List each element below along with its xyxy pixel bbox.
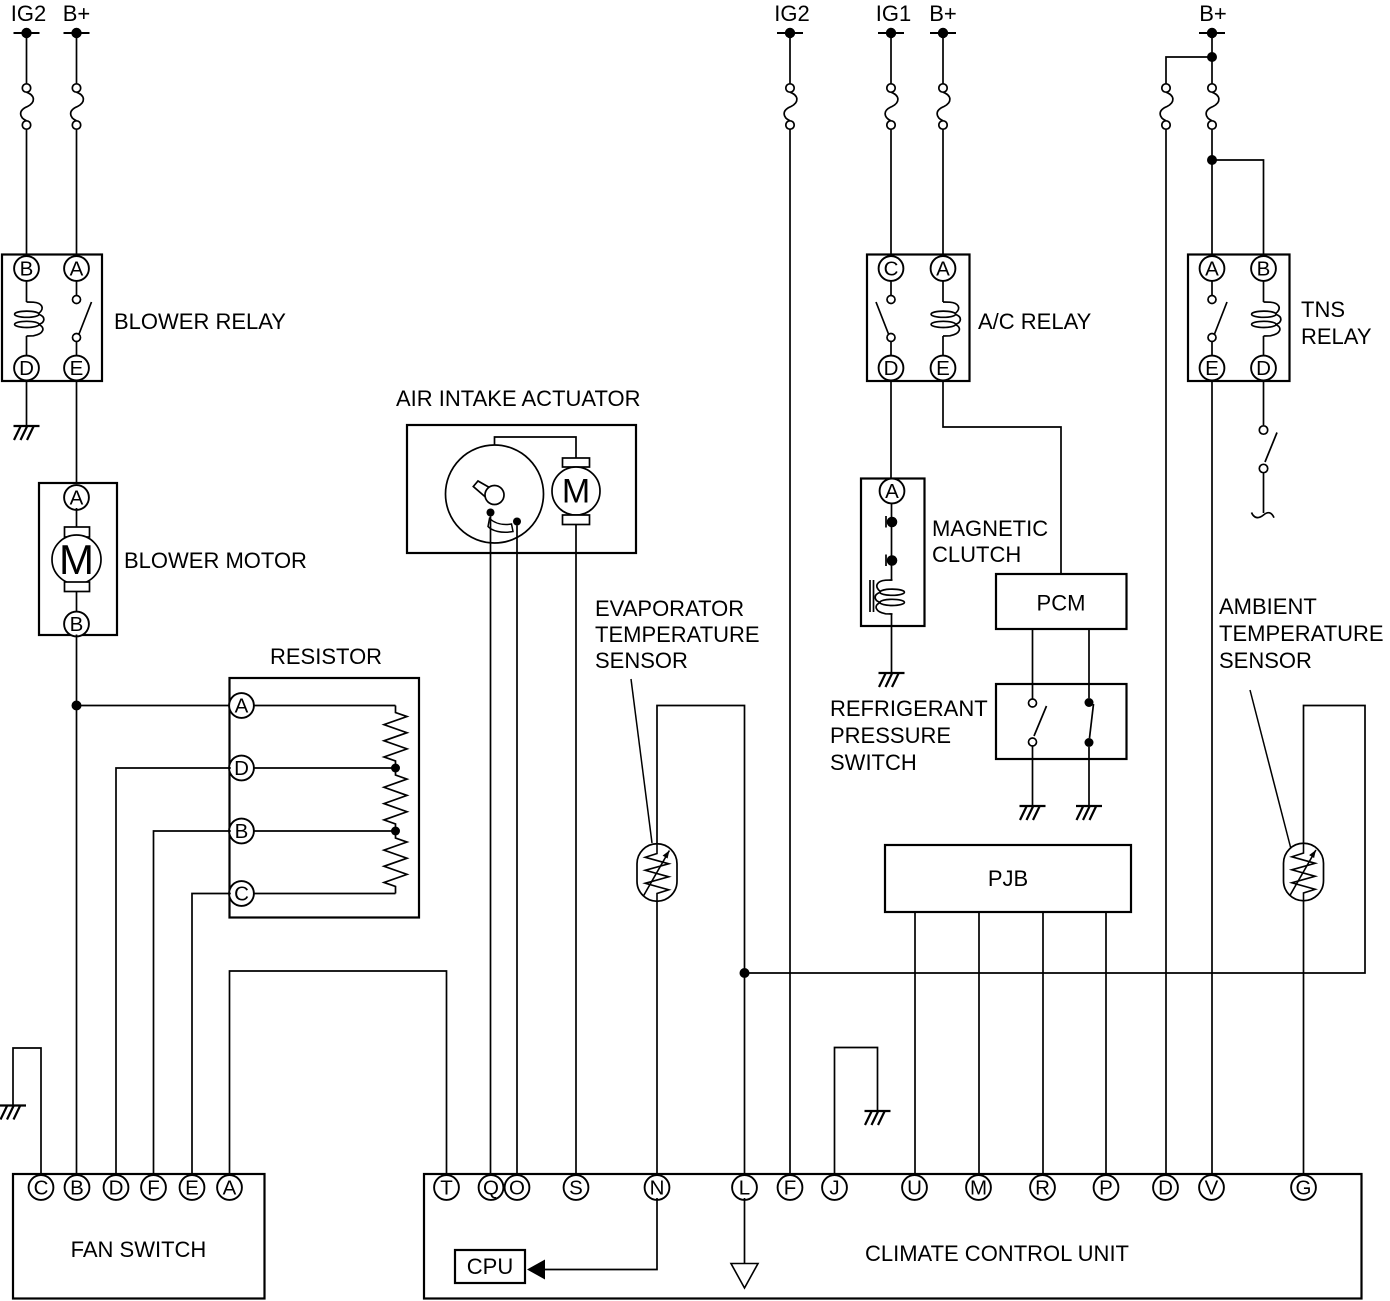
wire PJB to climate control unit U [914,912,916,1174]
ground below blower relay [14,426,40,440]
wire resistor C to fan switch E [192,894,231,1175]
climate control unit pin S [564,1175,589,1200]
fan switch pin B [65,1175,90,1200]
climate control unit box [424,1174,1362,1299]
svg-text:N: N [650,1177,665,1200]
svg-text:M: M [562,473,590,511]
svg-text:BLOWER RELAY: BLOWER RELAY [114,309,286,334]
svg-text:REFRIGERANT: REFRIGERANT [830,696,988,721]
wire fan switch C to ground [13,1048,41,1174]
wire IG1 to A/C relay pin C [890,38,892,255]
wire evaporator sensor loop to climate control unit L [657,706,745,1175]
svg-text:A: A [70,258,84,281]
TNS relay switch contact [1208,282,1227,356]
magnetic clutch pin A [880,479,905,504]
fan switch box [13,1174,265,1299]
svg-text:M: M [59,536,94,583]
internal ground triangle under L [731,1264,758,1289]
wire evaporator sensor to climate control unit N [656,901,658,1174]
pressure switch closed contact [1085,698,1094,747]
blower motor pin A [64,485,89,510]
svg-text:A: A [1205,258,1219,281]
svg-text:A: A [885,480,899,503]
A/C relay switch contact [876,282,895,356]
TNS relay pin E [1200,356,1225,381]
wire-continues squiggle on TNS D branch [1252,513,1275,518]
connector in D wire [1160,84,1173,129]
wire pressure switch right to ground [1088,747,1090,806]
wire actuator node2 to climate control unit O [516,526,518,1175]
blower relay pin D [14,356,39,381]
wire A/C relay D to magnetic clutch A [890,381,892,479]
svg-text:O: O [509,1177,525,1200]
wire resistor B to fan switch F [154,831,231,1174]
connector in IG1 wire [885,84,898,129]
ground for climate control unit J [865,1111,891,1125]
resistor internal wire A [252,705,396,707]
resistor pin D [229,756,254,781]
connector in middle B+ wire [937,84,950,129]
blower motor armature M [52,508,101,614]
climate control unit pin P [1094,1175,1119,1200]
svg-text:A: A [936,258,950,281]
wire fan switch A to climate control unit T [230,971,447,1174]
fan switch pin A [217,1175,242,1200]
svg-text:B: B [70,1177,84,1200]
climate control unit pin V [1199,1175,1224,1200]
svg-text:E: E [936,357,950,380]
TNS relay pin D [1251,356,1276,381]
climate control unit pin D [1153,1175,1178,1200]
svg-text:TEMPERATURE: TEMPERATURE [1219,621,1384,646]
svg-text:E: E [70,357,84,380]
evaporator temperature sensor thermistor [637,844,677,902]
arrow into CPU [527,1260,545,1280]
label EVAPORATOR TEMPERATURE SENSOR [595,596,760,673]
power terminal IG2 (left) [11,1,46,38]
fan switch pin F [141,1175,166,1200]
power terminal B+ (middle) [929,1,957,38]
svg-text:D: D [1158,1177,1173,1200]
wire blower relay E to blower motor A [76,381,78,483]
climate control unit pin M [966,1175,991,1200]
resistor pin C [229,881,254,906]
svg-text:D: D [234,757,249,780]
A/C relay pin E [931,356,956,381]
resistor pin B [229,819,254,844]
svg-text:L: L [739,1177,750,1200]
TNS relay box [1188,255,1290,382]
actuator wiper contact node 1 [487,509,495,517]
svg-text:CPU: CPU [467,1254,513,1279]
svg-text:TNS: TNS [1301,297,1345,322]
magnetic clutch connector node 2 [886,527,897,566]
ground for fan switch C [0,1106,26,1120]
wire B+ to blower relay pin A [76,38,78,255]
svg-text:Q: Q [483,1177,499,1200]
svg-text:C: C [34,1177,49,1200]
wire IG2 to blower relay pin B [26,38,28,255]
wire IG2 to climate control unit F [789,38,791,1174]
svg-text:PJB: PJB [988,866,1028,891]
wire pressure switch left to ground [1032,746,1034,806]
PCM box [996,574,1127,629]
blower relay coil [15,282,44,356]
power terminal B+ (left) [63,1,91,38]
power terminal IG2 (right) [774,1,809,38]
CPU box [455,1250,525,1283]
svg-text:D: D [1256,357,1271,380]
connector in B+ wire [71,84,84,129]
resistor element 3 [384,831,407,894]
svg-text:IG2: IG2 [774,1,809,26]
A/C relay box [867,255,970,382]
actuator wiper contact node 2 [513,518,521,526]
svg-text:CLIMATE CONTROL UNIT: CLIMATE CONTROL UNIT [865,1241,1129,1266]
svg-text:B+: B+ [63,1,91,26]
svg-text:EVAPORATOR: EVAPORATOR [595,596,744,621]
svg-text:C: C [234,883,249,906]
ground below magnetic clutch [879,673,905,687]
junction node blower motor / resistor A [72,701,82,711]
magnetic clutch coil with core [870,565,904,673]
resistor element 1 [384,706,407,769]
climate control unit pin T [434,1175,459,1200]
wire PJB to climate control unit P [1105,912,1107,1174]
svg-text:RELAY: RELAY [1301,324,1372,349]
svg-text:A/C RELAY: A/C RELAY [978,309,1092,334]
climate control unit pin Q [479,1175,504,1200]
fan switch pin D [104,1175,129,1200]
climate control unit pin F [778,1175,803,1200]
junction node resistor B tap [391,827,400,836]
climate control unit pin N [645,1175,670,1200]
svg-text:B: B [1257,258,1271,281]
climate control unit pin J [822,1175,847,1200]
connector in TNS B+ wire [1206,84,1219,129]
climate control unit pin U [902,1175,927,1200]
wire PJB to climate control unit M [978,912,980,1174]
power terminal IG1 [876,1,911,38]
TNS relay coil [1252,282,1281,356]
wire PCM to pressure switch left [1032,629,1034,699]
wire B+ to TNS relay pin A [1211,38,1213,255]
magnetic clutch box [861,479,925,627]
svg-text:G: G [1296,1177,1312,1200]
wire A/C relay E to PCM [943,381,1061,574]
svg-text:PCM: PCM [1037,591,1086,616]
fan switch pin C [29,1175,54,1200]
label REFRIGERANT PRESSURE SWITCH [830,696,988,775]
svg-text:SENSOR: SENSOR [1219,648,1312,673]
resistor pin A [229,693,254,718]
svg-text:J: J [829,1177,839,1200]
wire actuator node1 to climate control unit Q [490,517,492,1175]
leader line to evaporator sensor [631,679,652,843]
TNS relay pin A [1200,256,1225,281]
resistor internal wire B [252,830,396,832]
TNS relay D output switch [1259,381,1277,513]
svg-text:E: E [185,1177,199,1200]
svg-text:BLOWER MOTOR: BLOWER MOTOR [124,548,307,573]
svg-text:F: F [147,1177,160,1200]
svg-text:SENSOR: SENSOR [595,648,688,673]
wire PJB to climate control unit R [1042,912,1044,1174]
svg-text:B: B [235,820,249,843]
wire common junction to ambient loop [745,706,1366,974]
wire actuator motor to climate control unit S [575,525,577,1175]
actuator motor M [552,458,600,525]
connector in IG2 wire [21,84,34,129]
blower relay pin B [14,256,39,281]
wire blower motor B down to fan switch B [76,635,78,1175]
connector in right IG2 wire [784,84,797,129]
wire junction to resistor pin A [77,705,232,707]
svg-text:AMBIENT: AMBIENT [1219,594,1317,619]
svg-text:R: R [1035,1177,1050,1200]
junction node B+ branch [1207,52,1217,62]
svg-text:AIR INTAKE ACTUATOR: AIR INTAKE ACTUATOR [396,386,640,411]
wire ambient sensor to climate control unit G [1303,901,1305,1175]
svg-text:TEMPERATURE: TEMPERATURE [595,622,760,647]
junction node sensor common [740,968,750,978]
TNS relay pin B [1251,256,1276,281]
svg-text:MAGNETIC: MAGNETIC [932,516,1048,541]
climate control unit pin R [1030,1175,1055,1200]
svg-text:C: C [884,258,899,281]
junction node TNS coil branch [1207,155,1217,165]
svg-text:B+: B+ [1199,1,1227,26]
A/C relay coil [931,282,960,356]
wire climate control unit J to ground [835,1048,878,1175]
svg-text:SWITCH: SWITCH [830,750,917,775]
svg-text:A: A [223,1177,237,1200]
A/C relay pin D [879,356,904,381]
ambient temperature sensor thermistor [1284,843,1324,901]
svg-text:FAN SWITCH: FAN SWITCH [71,1237,207,1262]
blower relay box [2,255,102,382]
wire climate control unit N to CPU [545,1198,657,1270]
pressure switch open contact [1029,699,1047,746]
climate control unit pin L [732,1175,757,1200]
svg-text:P: P [1099,1177,1113,1200]
magnetic clutch connector node 1 [886,503,897,528]
blower relay pin A [64,256,89,281]
svg-text:A: A [70,487,84,510]
svg-text:IG2: IG2 [11,1,46,26]
svg-text:D: D [19,357,34,380]
svg-text:M: M [970,1177,987,1200]
label MAGNETIC CLUTCH [932,516,1048,567]
svg-text:U: U [907,1177,922,1200]
resistor internal wire C [252,893,396,895]
junction node resistor D tap [391,764,400,773]
svg-text:A: A [235,695,249,718]
wire branch to TNS relay pin B [1212,160,1264,255]
resistor internal wire D [252,767,396,769]
blower motor pin B [64,612,89,637]
blower motor box [39,483,117,635]
climate control unit pin O [505,1175,530,1200]
leader line to ambient sensor [1250,690,1291,849]
A/C relay pin C [879,256,904,281]
blower relay switch contact [73,282,92,356]
label AMBIENT TEMPERATURE SENSOR [1219,594,1384,673]
svg-text:D: D [884,357,899,380]
svg-text:D: D [109,1177,124,1200]
actuator position track arc [488,519,513,533]
actuator cam key [473,481,504,505]
wire resistor D to fan switch D [116,768,231,1174]
svg-text:B: B [20,258,34,281]
svg-text:B: B [70,613,84,636]
svg-text:IG1: IG1 [876,1,911,26]
label TNS RELAY [1301,297,1372,349]
resistor box [230,678,420,918]
svg-text:E: E [1205,357,1219,380]
power terminal B+ (right) [1199,1,1227,38]
climate control unit pin G [1291,1175,1316,1200]
ground below pressure switch right [1076,806,1102,820]
ground below pressure switch left [1020,806,1046,820]
actuator cam disc [446,437,577,543]
air intake actuator box [407,425,636,553]
wire TNS relay E to climate control unit V [1211,381,1213,1174]
svg-text:CLUTCH: CLUTCH [932,542,1021,567]
svg-text:S: S [569,1177,583,1200]
PJB box [885,845,1131,912]
wire blower relay D to ground [26,381,28,426]
wire PCM to pressure switch right [1088,629,1090,698]
svg-text:PRESSURE: PRESSURE [830,723,951,748]
resistor element 2 [384,768,407,831]
refrigerant pressure switch box [996,684,1127,759]
svg-text:B+: B+ [929,1,957,26]
blower relay pin E [64,356,89,381]
svg-text:F: F [784,1177,797,1200]
fan switch pin E [180,1175,205,1200]
wire climate control unit L to internal ground [744,1198,746,1264]
wire B+ to A/C relay pin A [942,38,944,255]
svg-text:V: V [1205,1177,1219,1200]
wire B+ branch to climate control unit D [1166,57,1212,1174]
svg-text:RESISTOR: RESISTOR [270,644,382,669]
svg-text:T: T [440,1177,453,1200]
A/C relay pin A [931,256,956,281]
